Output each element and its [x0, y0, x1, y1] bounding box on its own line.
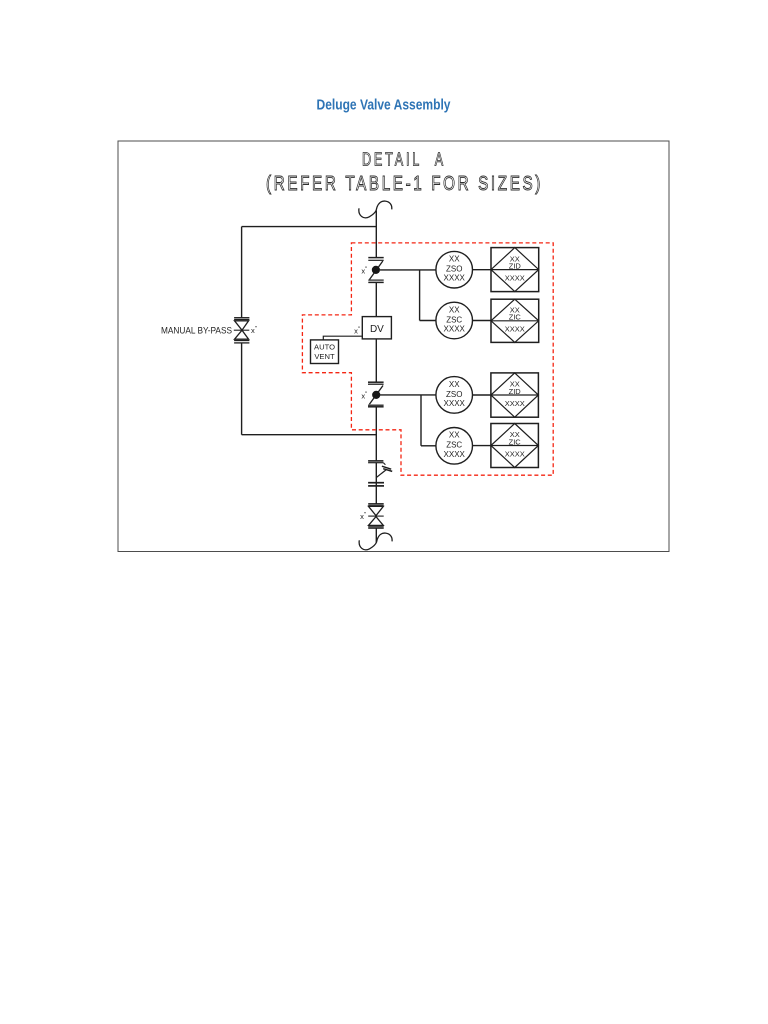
svg-text:MANUAL BY-PASS: MANUAL BY-PASS	[161, 325, 232, 335]
butterfly valve V1	[368, 258, 383, 283]
svg-text:XXXX: XXXX	[444, 325, 466, 334]
pipe break symbol bottom	[359, 533, 392, 550]
main pipe segment 1	[375, 211, 377, 258]
svg-text:XX: XX	[449, 380, 460, 389]
svg-text:XX: XX	[449, 431, 460, 440]
svg-text:DETAIL A: DETAIL A	[362, 150, 446, 170]
butterfly valve V2	[368, 382, 384, 407]
main pipe segment 2	[375, 283, 377, 317]
logic box ZID-1	[491, 248, 539, 292]
main pipe segment 3	[375, 339, 377, 382]
instrument signal line row 1	[380, 270, 539, 321]
bypass gate valve	[234, 318, 250, 343]
main pipe segment 5	[375, 463, 377, 504]
bypass riser upper segment	[241, 227, 243, 318]
check valve flange	[368, 461, 383, 463]
drawing frame border	[118, 141, 669, 552]
bypass return pipe	[242, 434, 377, 436]
instrument signal line row 2	[380, 395, 538, 446]
svg-text:XXXX: XXXX	[505, 449, 525, 458]
svg-text:x": x"	[361, 391, 367, 400]
svg-text:ZSO: ZSO	[446, 265, 462, 274]
instrument bubble ZSC-1	[436, 302, 473, 339]
logic box ZIC-1	[491, 299, 539, 342]
svg-text:x": x"	[360, 512, 366, 521]
svg-text:ZIC: ZIC	[509, 313, 522, 322]
check valve flap	[376, 463, 392, 478]
svg-text:x": x"	[361, 266, 367, 275]
bypass riser lower segment	[241, 343, 243, 435]
svg-text:x": x"	[251, 326, 257, 335]
svg-text:XXXX: XXXX	[505, 399, 525, 408]
svg-text:XXXX: XXXX	[444, 450, 466, 459]
instrument bubble ZSO-1	[436, 251, 473, 288]
svg-text:DV: DV	[370, 324, 384, 335]
main pipe segment 6	[375, 528, 377, 542]
svg-text:ZSC: ZSC	[446, 315, 462, 324]
svg-text:VENT: VENT	[314, 352, 335, 361]
union flanges	[368, 483, 384, 486]
pipe break symbol top	[359, 201, 392, 218]
svg-text:XX: XX	[449, 305, 460, 314]
logic box ZID-2	[491, 373, 539, 417]
auto vent signal line	[323, 336, 362, 340]
instrument bubble ZSC-2	[436, 428, 473, 465]
svg-text:ZID: ZID	[509, 387, 522, 396]
svg-text:ZID: ZID	[509, 261, 522, 270]
deluge valve DV box	[362, 317, 391, 339]
svg-text:ZSO: ZSO	[446, 390, 462, 399]
svg-text:x": x"	[354, 326, 360, 335]
svg-text:XX: XX	[449, 255, 460, 264]
svg-text:ZIC: ZIC	[509, 437, 522, 446]
svg-text:XXXX: XXXX	[505, 325, 525, 334]
logic box ZIC-2	[491, 424, 539, 468]
svg-text:XXXX: XXXX	[505, 273, 525, 282]
main pipe segment 4	[375, 407, 377, 460]
instrument bubble ZSO-2	[436, 377, 473, 414]
instrument loop boundary (red dashed)	[302, 243, 553, 475]
bypass top header pipe	[242, 226, 377, 228]
svg-text:(REFER TABLE-1 FOR SIZES): (REFER TABLE-1 FOR SIZES)	[266, 172, 543, 195]
auto vent box	[311, 340, 339, 364]
svg-text:ZSC: ZSC	[446, 441, 462, 450]
svg-text:AUTO: AUTO	[314, 343, 335, 352]
svg-text:XXXX: XXXX	[444, 399, 466, 408]
drain gate valve	[368, 504, 384, 529]
svg-text:XXXX: XXXX	[444, 274, 466, 283]
svg-text:Deluge Valve Assembly: Deluge Valve Assembly	[317, 97, 452, 114]
